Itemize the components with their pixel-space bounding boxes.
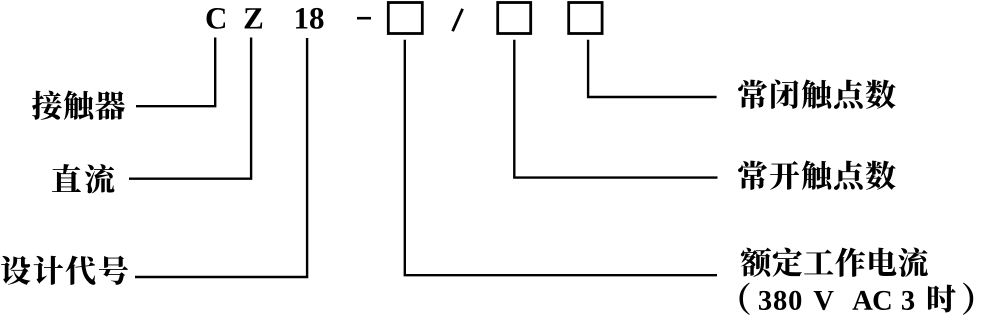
wire box2 to label (514, 40, 717, 178)
paren close (963, 283, 973, 315)
wire box1 to label (405, 40, 717, 275)
wire Z to label (129, 38, 251, 179)
label NC contact count (738, 79, 896, 108)
paren open (739, 283, 749, 315)
box rated-current (388, 3, 422, 34)
text Z (DC code) (245, 8, 263, 28)
text C (contactor code) (207, 8, 226, 29)
label jiechuqi (contactor) (32, 91, 125, 120)
box NO-contacts (498, 3, 531, 34)
box NC-contacts (569, 3, 602, 34)
label shi (duty) (928, 285, 956, 313)
text 18 (design number) (296, 8, 323, 29)
label rated working current (741, 247, 928, 276)
text 380 (759, 291, 801, 310)
wire box3 to label (588, 40, 717, 97)
label zhiliu (DC) (52, 164, 114, 193)
slash separator (453, 9, 463, 31)
wire 18 to label (135, 38, 307, 277)
text V (814, 291, 834, 310)
text AC 3 (852, 291, 914, 310)
wire C to label (136, 38, 215, 107)
label NO contact count (738, 161, 896, 190)
hyphen separator (357, 17, 371, 20)
label sheji daihao (design code) (1, 256, 128, 285)
